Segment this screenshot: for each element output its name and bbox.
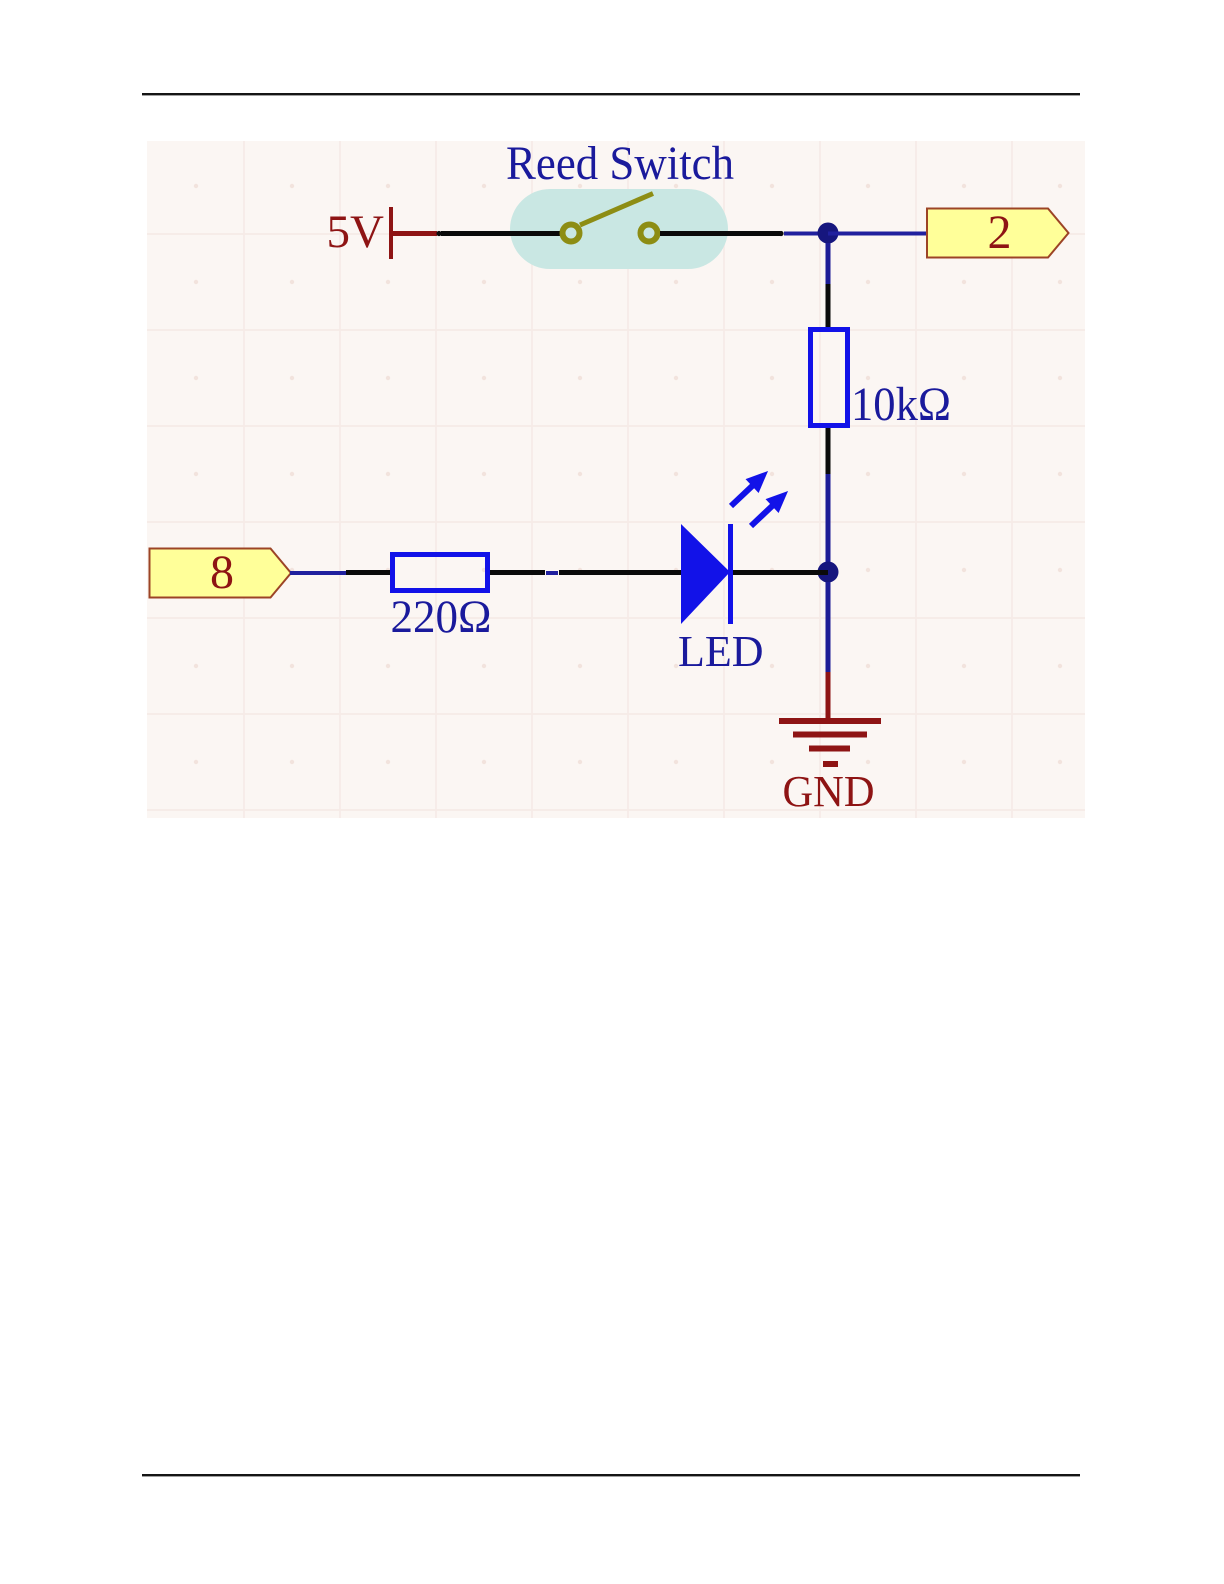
- svg-text:GND: GND: [783, 767, 875, 816]
- wire reed switch to junction: [660, 231, 780, 236]
- svg-text:Reed Switch: Reed Switch: [506, 137, 734, 190]
- wire junction to ground: [826, 582, 831, 672]
- node junction top: [818, 223, 839, 244]
- schematic background: [147, 141, 1085, 818]
- node junction LED: [818, 562, 839, 583]
- wire junction down to resistor: [826, 243, 831, 284]
- ground: [779, 718, 881, 767]
- wire junction to pin 2: [828, 232, 927, 236]
- svg-text:8: 8: [210, 546, 234, 599]
- svg-text:LED: LED: [678, 627, 764, 676]
- wire pin 8 to resistor: [290, 571, 346, 575]
- resistor R1 10k: [811, 330, 848, 426]
- reed switch S1: [563, 194, 658, 242]
- pin label 2: [927, 206, 1069, 259]
- svg-text:220Ω: 220Ω: [391, 591, 492, 643]
- wire LED to junction: [733, 570, 828, 575]
- wire 5V to reed switch: [441, 231, 561, 236]
- svg-text:10kΩ: 10kΩ: [851, 378, 951, 431]
- top rule: [142, 93, 1080, 95]
- wire resistor to LED junction: [826, 428, 831, 474]
- svg-text:2: 2: [988, 206, 1012, 259]
- LED D1: [681, 464, 795, 624]
- svg-text:5V: 5V: [327, 206, 385, 258]
- reed switch highlight blob: [510, 189, 728, 269]
- power symbol 5V: [327, 206, 437, 259]
- bottom rule: [142, 1474, 1080, 1476]
- resistor R2 220: [393, 555, 488, 591]
- wire resistor to LED: [490, 570, 545, 575]
- pin label 8: [150, 546, 292, 599]
